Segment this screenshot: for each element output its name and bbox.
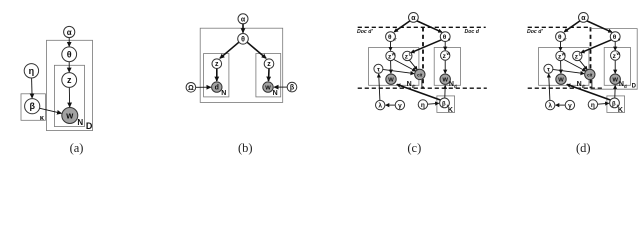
svg-text:α: α: [241, 16, 246, 23]
svg-text:L: L: [579, 51, 582, 56]
svg-text:θ: θ: [613, 34, 617, 41]
svg-text:d': d': [412, 84, 416, 89]
svg-text:θ: θ: [388, 34, 392, 41]
svg-text:γ: γ: [398, 103, 402, 110]
svg-text:β: β: [29, 101, 35, 111]
svg-text:β: β: [612, 101, 616, 107]
svg-text:cit: cit: [587, 72, 593, 77]
svg-text:(d): (d): [576, 141, 591, 155]
svg-text:z: z: [67, 75, 72, 85]
svg-text:β: β: [442, 101, 446, 107]
svg-text:w: w: [557, 77, 564, 84]
svg-text:η: η: [29, 66, 35, 76]
svg-text:d: d: [215, 85, 219, 92]
svg-text:N: N: [77, 118, 83, 127]
svg-text:λ: λ: [548, 102, 552, 110]
svg-text:N: N: [273, 90, 278, 97]
svg-text:K: K: [618, 107, 623, 114]
svg-text:λ: λ: [378, 102, 382, 110]
svg-text:τ: τ: [377, 66, 380, 73]
svg-text:θ: θ: [443, 34, 447, 41]
svg-text:β: β: [290, 85, 295, 92]
svg-text:Ω: Ω: [188, 85, 194, 92]
svg-text:w: w: [616, 51, 621, 56]
svg-text:θ: θ: [67, 49, 72, 59]
svg-text:w: w: [65, 111, 74, 121]
svg-text:z: z: [267, 61, 271, 68]
svg-text:α: α: [581, 15, 586, 22]
svg-text:w: w: [446, 51, 451, 56]
svg-text:d: d: [454, 84, 457, 89]
svg-text:(a): (a): [70, 141, 84, 155]
svg-text:(c): (c): [407, 141, 421, 155]
svg-text:L: L: [409, 51, 412, 56]
svg-text:d': d': [582, 84, 586, 89]
svg-text:N: N: [221, 90, 226, 97]
svg-text:D: D: [86, 121, 93, 131]
svg-text:z: z: [215, 61, 219, 68]
svg-text:Doc d': Doc d': [527, 29, 543, 35]
svg-text:Doc d: Doc d: [465, 29, 480, 35]
svg-text:w: w: [561, 51, 566, 56]
svg-text:D: D: [632, 83, 637, 89]
svg-text:γ: γ: [568, 103, 572, 110]
svg-text:d': d': [563, 36, 566, 41]
svg-text:(b): (b): [238, 141, 253, 155]
svg-text:α: α: [67, 28, 72, 37]
svg-text:d: d: [624, 84, 627, 89]
svg-text:α: α: [411, 15, 416, 22]
svg-text:cit: cit: [417, 72, 423, 77]
svg-text:η: η: [421, 102, 425, 109]
svg-text:w: w: [391, 51, 396, 56]
svg-text:τ: τ: [547, 66, 550, 73]
svg-text:w: w: [441, 77, 448, 84]
svg-text:w: w: [387, 77, 394, 84]
svg-text:w: w: [611, 77, 618, 84]
svg-text:θ: θ: [241, 36, 245, 43]
svg-text:η: η: [591, 102, 595, 109]
svg-text:d': d': [393, 36, 396, 41]
svg-text:w: w: [264, 85, 271, 92]
svg-text:Doc d': Doc d': [357, 29, 373, 35]
svg-text:θ: θ: [558, 34, 562, 41]
svg-text:K: K: [448, 107, 453, 114]
